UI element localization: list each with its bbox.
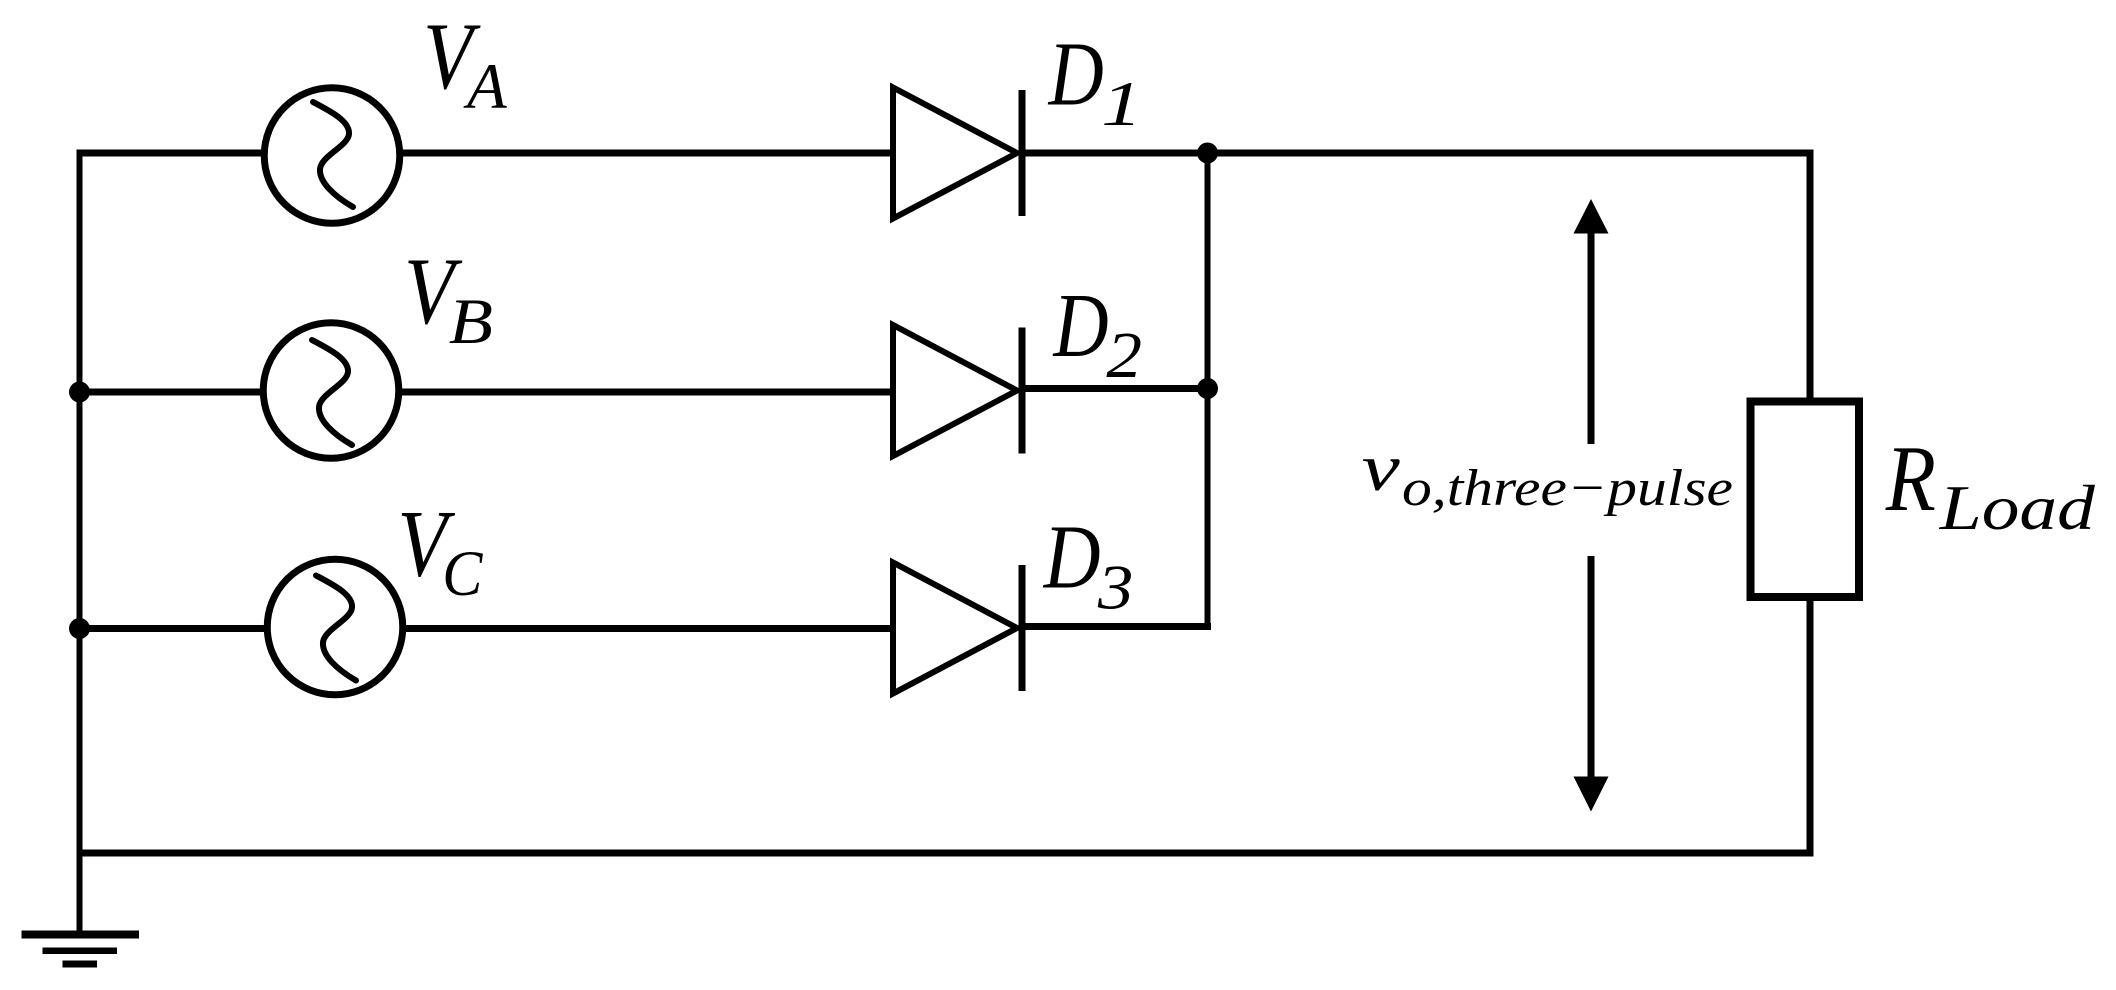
svg-text:2: 2 [1106, 318, 1142, 391]
svg-text:o,three−pulse: o,three−pulse [1402, 460, 1733, 517]
svg-text:C: C [442, 537, 483, 610]
svg-text:R: R [1885, 427, 1936, 532]
svg-text:A: A [463, 51, 507, 123]
svg-text:B: B [449, 285, 493, 357]
svg-text:v: v [1362, 430, 1401, 505]
svg-text:D: D [1053, 276, 1109, 377]
svg-text:3: 3 [1097, 552, 1134, 623]
svg-text:1: 1 [1101, 68, 1142, 139]
svg-text:D: D [1043, 507, 1101, 608]
svg-text:Load: Load [1939, 472, 2096, 543]
svg-text:D: D [1048, 24, 1104, 125]
